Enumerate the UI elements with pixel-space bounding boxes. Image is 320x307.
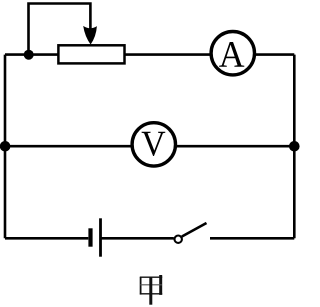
wire ammeter to right rail	[253, 53, 294, 56]
label 甲 (drawn strokes)	[140, 275, 162, 305]
wire switch to right rail	[210, 237, 294, 240]
wire top main	[5, 53, 59, 56]
wire voltmeter branch	[5, 145, 294, 148]
wire bottom left to battery	[5, 237, 88, 240]
wire resistor to ammeter	[125, 53, 212, 56]
battery cell: long positive plate	[99, 218, 102, 256]
ammeter letter A	[219, 42, 244, 67]
wire right rail	[293, 55, 296, 239]
node junction right voltmeter	[289, 141, 300, 152]
node junction left-top	[24, 50, 34, 60]
wire battery to switch	[102, 237, 174, 240]
switch pivot circle	[175, 236, 182, 243]
voltmeter letter V	[142, 132, 166, 156]
voltmeter U2 circle	[132, 123, 175, 166]
wiper arrowhead	[83, 26, 97, 45]
switch lever	[182, 223, 207, 237]
wire left rail	[4, 55, 7, 239]
node junction left voltmeter	[0, 141, 10, 152]
resistor R (rheostat body)	[58, 45, 124, 63]
battery cell: short negative plate	[88, 228, 92, 246]
ammeter U1 circle	[211, 32, 254, 75]
wire rheostat wiper loop	[29, 4, 91, 55]
